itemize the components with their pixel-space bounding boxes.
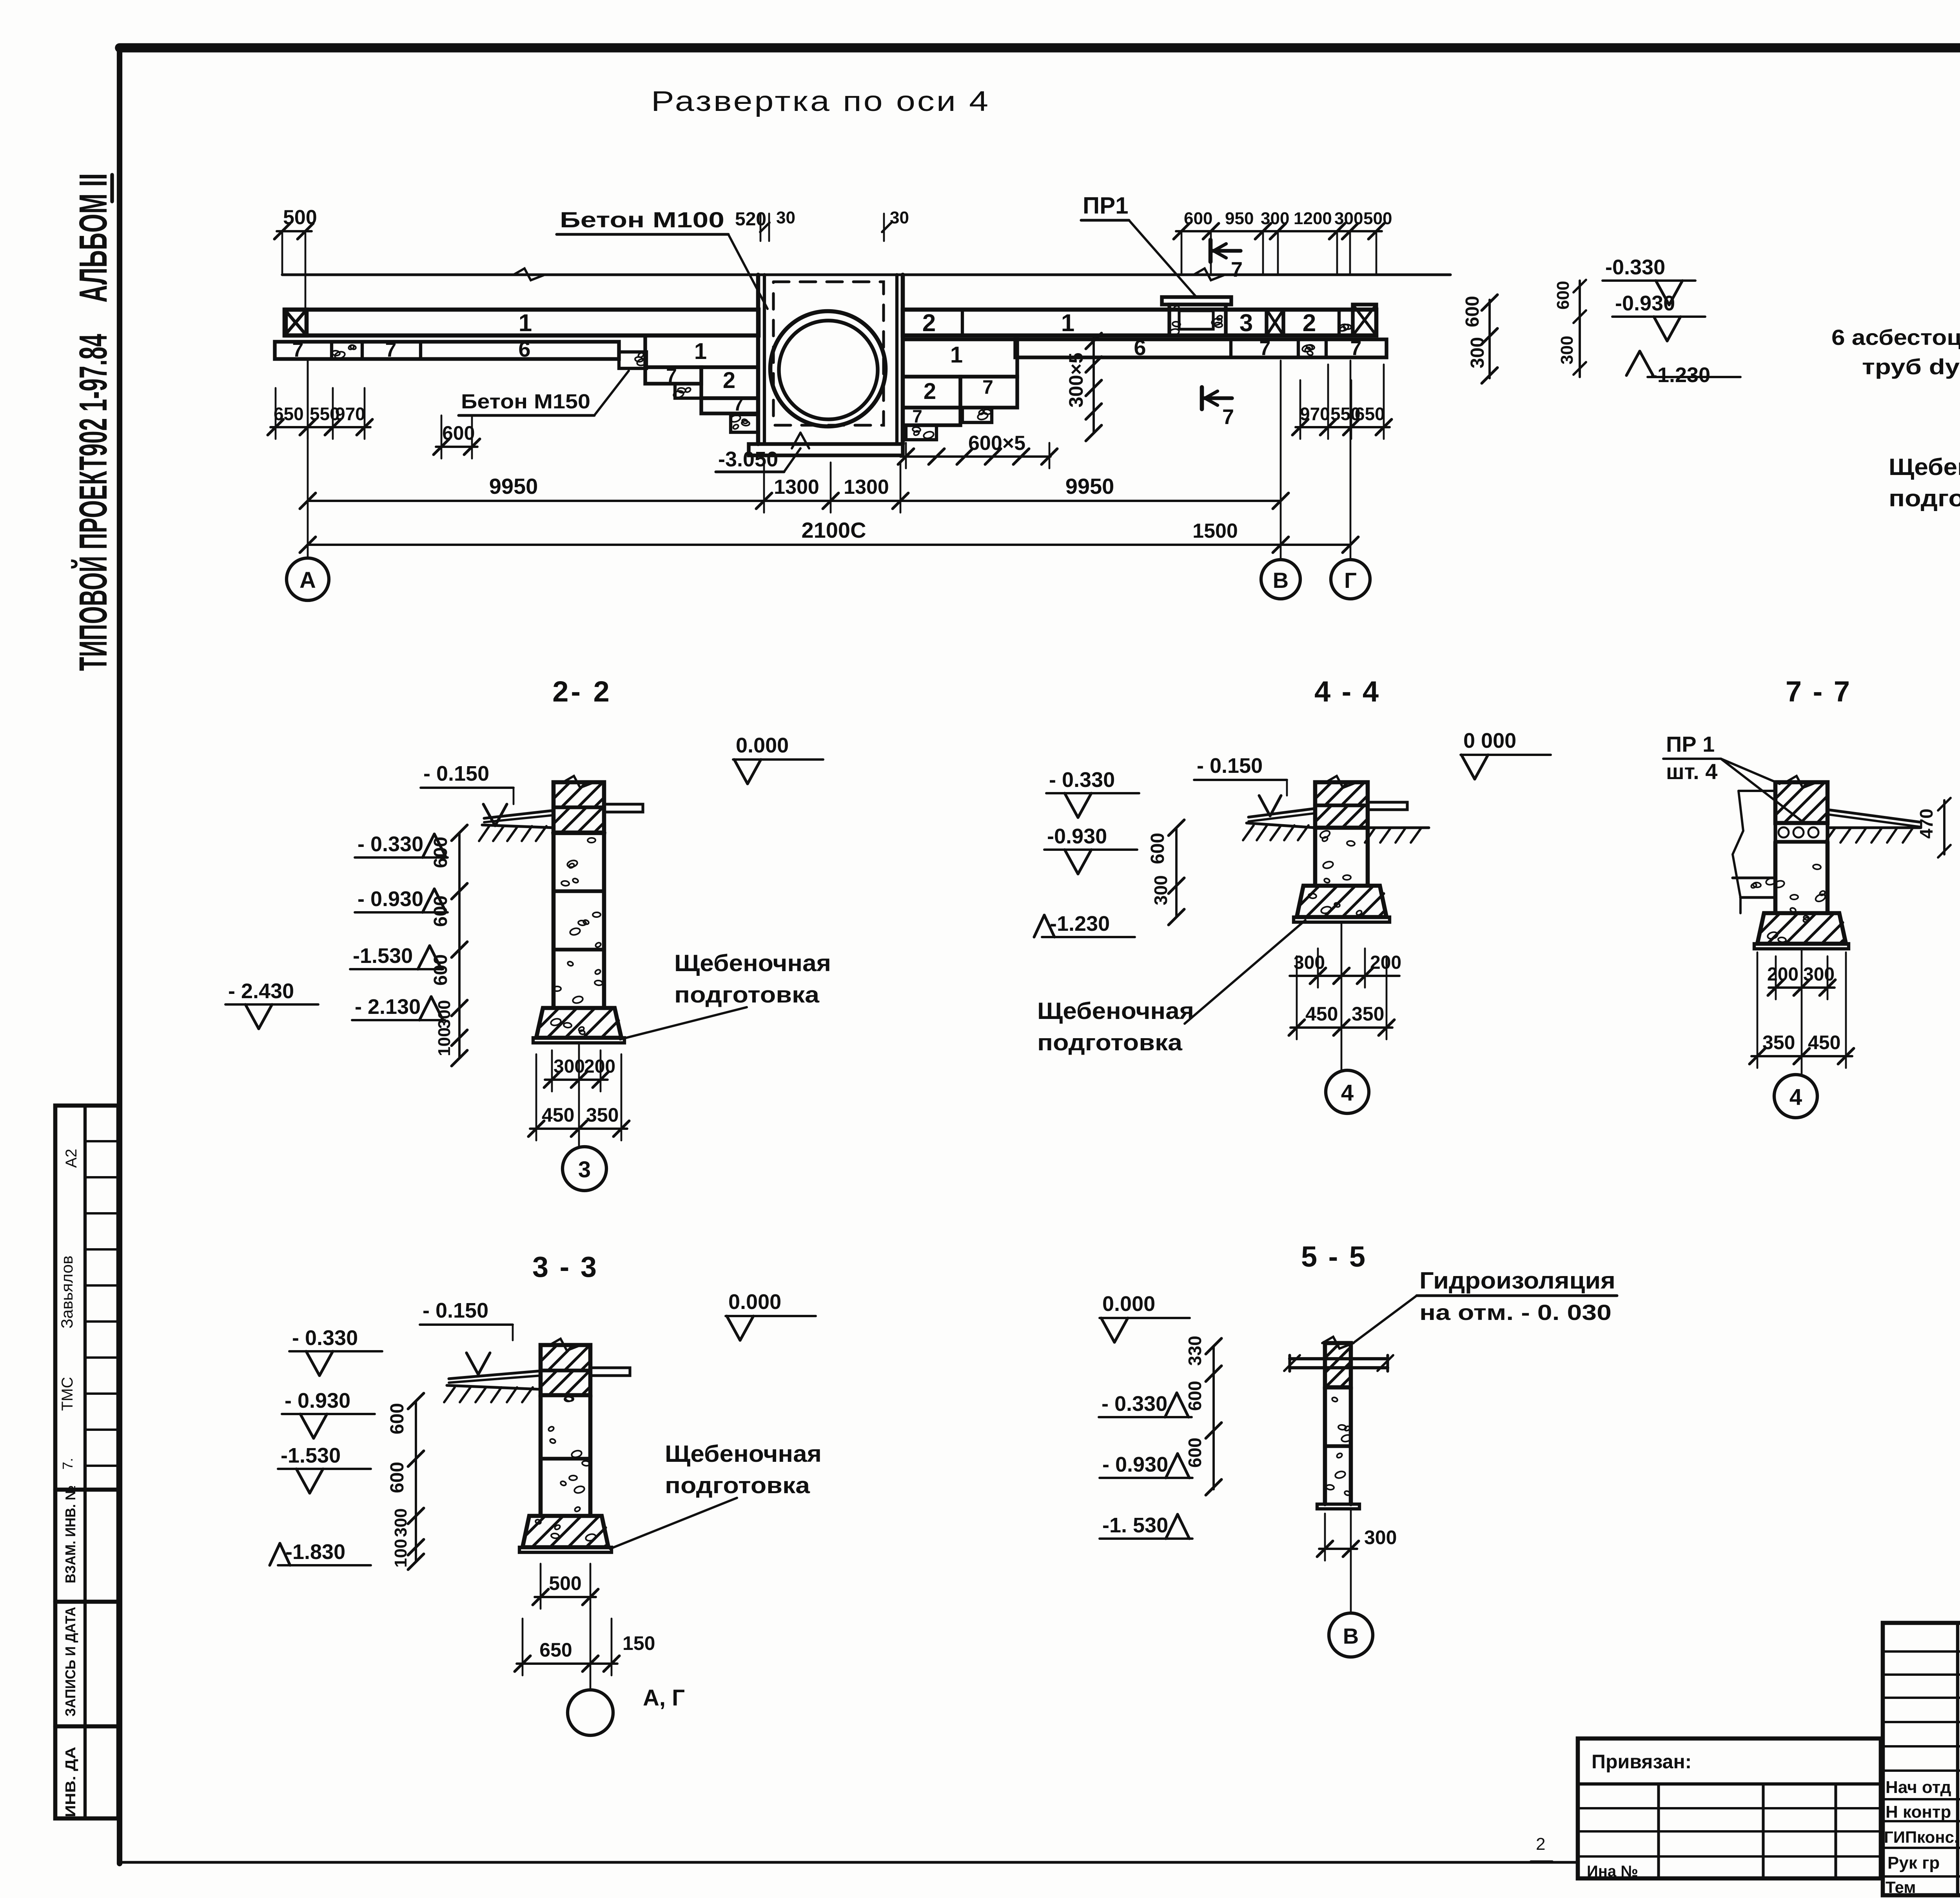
- dim 600 300 vertical right of band: [1488, 300, 1491, 378]
- pit walls: [756, 275, 760, 444]
- svg-text:450: 450: [1305, 1003, 1338, 1025]
- svg-text:-1.530: -1.530: [353, 944, 413, 968]
- svg-text:0 000: 0 000: [1463, 729, 1516, 752]
- svg-text:Г: Г: [1344, 568, 1357, 593]
- svg-text:Гидроизоляция: Гидроизоляция: [1419, 1267, 1615, 1294]
- svg-text:- 0.150: - 0.150: [1197, 754, 1263, 778]
- svg-text:Бетон М100: Бетон М100: [560, 207, 724, 232]
- 5-5 column concrete: [1323, 1387, 1327, 1504]
- svg-text:600: 600: [387, 1403, 408, 1434]
- svg-text:ТМС: ТМС: [59, 1377, 76, 1411]
- svg-text:Привязан:: Привязан:: [1592, 1751, 1691, 1773]
- svg-text:200: 200: [1767, 964, 1798, 985]
- svg-text:Щебеночная: Щебеночная: [1037, 998, 1194, 1024]
- svg-text:7: 7: [982, 376, 993, 398]
- svg-text:6: 6: [518, 337, 530, 361]
- 4-4 column concrete: [1313, 828, 1318, 886]
- svg-text:520: 520: [735, 209, 766, 230]
- svg-text:подготовка: подготовка: [665, 1473, 810, 1498]
- 5-5 axis circle V: [1350, 1509, 1352, 1613]
- svg-text:7.: 7.: [60, 1458, 76, 1470]
- left X anchor box: [285, 310, 307, 335]
- 3-3 dim 650 150: [517, 1662, 617, 1665]
- svg-text:А: А: [299, 567, 316, 593]
- svg-text:300: 300: [435, 1000, 454, 1029]
- svg-text:100: 100: [391, 1539, 410, 1568]
- axis circle G: [1331, 560, 1370, 599]
- 2-2 axis circle 3: [563, 1147, 606, 1191]
- svg-text:970: 970: [335, 404, 365, 424]
- dim row top right 600 950 300 1200 300 500: [1176, 230, 1382, 232]
- 4-4 vertical dims 600 300: [1175, 828, 1178, 917]
- svg-text:- 0.330: - 0.330: [358, 832, 423, 856]
- 2-2 dims 450 350: [530, 1128, 627, 1130]
- svg-text:970: 970: [1300, 404, 1330, 424]
- svg-text:- 0.330: - 0.330: [292, 1326, 358, 1350]
- svg-text:Бетон М150: Бетон М150: [461, 390, 590, 413]
- razvertka slab band right: [903, 310, 1376, 335]
- axis circle A: [287, 558, 329, 600]
- svg-text:-1.230: -1.230: [1650, 363, 1710, 387]
- 4-4 ground: [1247, 823, 1315, 828]
- svg-text:- 2.130: - 2.130: [355, 995, 421, 1019]
- svg-text:3: 3: [1240, 310, 1253, 337]
- svg-text:4: 4: [1789, 1084, 1802, 1110]
- 3-3 footing: [523, 1516, 608, 1547]
- svg-text:- 0.150: - 0.150: [423, 762, 489, 785]
- svg-text:-1.530: -1.530: [281, 1444, 341, 1467]
- 5-5 dim 300: [1319, 1548, 1357, 1550]
- 7-7 footing: [1757, 913, 1846, 944]
- signature table: [1883, 1623, 1960, 1895]
- svg-text:2: 2: [723, 368, 735, 393]
- svg-text:ИНВ. ДА: ИНВ. ДА: [62, 1747, 78, 1817]
- 4-4 pipe stub right: [1368, 802, 1407, 810]
- svg-text:3 - 3: 3 - 3: [532, 1251, 598, 1283]
- right foundation steps: [903, 339, 1017, 377]
- svg-text:Щебеночная: Щебеночная: [1889, 454, 1960, 480]
- svg-text:ПР1: ПР1: [1083, 192, 1129, 219]
- 2-2 vertical dims: [458, 833, 461, 1058]
- svg-text:7: 7: [1259, 337, 1271, 360]
- razvertka slab band left: [286, 310, 759, 335]
- svg-text:600: 600: [1185, 1381, 1205, 1411]
- svg-text:7: 7: [733, 393, 744, 415]
- 4-4 dims 450 350: [1290, 1026, 1392, 1029]
- razvertka ground line: [282, 273, 1450, 276]
- svg-text:- 2.430: - 2.430: [228, 979, 294, 1003]
- svg-text:-0.330: -0.330: [1605, 256, 1665, 279]
- main dim row 21000 1500: [308, 544, 1350, 546]
- svg-text:труб dy 100: труб dy 100: [1862, 354, 1960, 379]
- svg-text:300: 300: [554, 1056, 585, 1077]
- svg-text:Рук гр: Рук гр: [1887, 1853, 1940, 1873]
- section flag 7 lower: [1200, 387, 1204, 409]
- svg-text:300: 300: [1803, 964, 1835, 985]
- 2-2 column: [554, 782, 604, 833]
- pit bottom slab: [749, 444, 903, 455]
- svg-text:300: 300: [1364, 1526, 1397, 1548]
- svg-text:подготовка: подготовка: [674, 982, 820, 1008]
- svg-text:- 0.330: - 0.330: [1049, 768, 1115, 792]
- 3-3 dim 500: [535, 1596, 596, 1598]
- svg-text:Щебеночная: Щебеночная: [674, 950, 831, 976]
- dim 500 top left: [277, 230, 312, 232]
- svg-text:2: 2: [924, 379, 936, 404]
- right X box 1: [1267, 310, 1283, 335]
- svg-text:350: 350: [1352, 1003, 1384, 1025]
- svg-text:500: 500: [1363, 209, 1392, 228]
- 4-4 axis circle 4: [1326, 1070, 1369, 1113]
- svg-text:2: 2: [1536, 1835, 1545, 1854]
- 2-2 column concrete: [552, 833, 556, 1008]
- svg-text:7: 7: [912, 406, 922, 426]
- svg-text:650: 650: [539, 1639, 572, 1661]
- right speckled block in band: [1339, 310, 1353, 335]
- svg-text:30: 30: [776, 208, 795, 227]
- svg-text:350: 350: [1762, 1031, 1795, 1053]
- svg-text:- 0.150: - 0.150: [423, 1299, 488, 1322]
- main dim row 9950 1300 1300 9950: [308, 500, 1281, 502]
- lower strip right: [1015, 339, 1387, 357]
- svg-text:950: 950: [1225, 209, 1254, 228]
- svg-text:4 - 4: 4 - 4: [1314, 675, 1380, 708]
- svg-text:600: 600: [430, 954, 451, 986]
- svg-text:-1.830: -1.830: [285, 1540, 345, 1564]
- svg-text:300: 300: [1334, 209, 1363, 228]
- svg-text:Н контр: Н контр: [1886, 1802, 1951, 1822]
- dim 600 left steps: [436, 446, 477, 448]
- svg-text:450: 450: [1808, 1031, 1840, 1053]
- svg-text:В: В: [1343, 1624, 1359, 1648]
- svg-text:650: 650: [274, 404, 304, 424]
- svg-text:470: 470: [1916, 809, 1936, 839]
- svg-text:Развертка по оси 4: Развертка по оси 4: [651, 86, 990, 117]
- svg-text:подготовка: подготовка: [1037, 1030, 1183, 1055]
- svg-text:шт. 4: шт. 4: [1666, 759, 1717, 784]
- 4-4 dims 300 200: [1290, 975, 1399, 977]
- svg-text:300: 300: [1294, 952, 1325, 973]
- privyazan box: [1578, 1738, 1881, 1878]
- svg-text:А2: А2: [63, 1149, 80, 1168]
- 3-3 column concrete: [539, 1395, 543, 1516]
- 5-5 vertical dims 330 600 600: [1212, 1346, 1215, 1489]
- svg-text:300: 300: [1151, 875, 1171, 905]
- svg-text:300: 300: [391, 1508, 410, 1537]
- svg-text:- 0.930: - 0.930: [358, 887, 423, 911]
- left margin stamp table: [55, 1106, 118, 1818]
- svg-text:ТИПОВОЙ ПРОЕКТ902 1-97.84: ТИПОВОЙ ПРОЕКТ902 1-97.84: [71, 334, 115, 671]
- 5-5 base plate: [1317, 1504, 1359, 1509]
- 7-7 dims 350 450: [1751, 1055, 1852, 1057]
- svg-text:- 0.930: - 0.930: [1102, 1453, 1168, 1476]
- svg-text:600: 600: [442, 422, 475, 444]
- svg-text:2: 2: [922, 310, 936, 337]
- svg-text:А, Г: А, Г: [643, 1685, 685, 1711]
- 4-4 footing: [1297, 886, 1387, 917]
- svg-text:1: 1: [694, 339, 707, 364]
- svg-text:600: 600: [1185, 1438, 1205, 1468]
- svg-text:600: 600: [1553, 281, 1573, 310]
- svg-text:В: В: [1273, 568, 1289, 593]
- svg-text:-0.930: -0.930: [1615, 292, 1675, 315]
- dim 600x5 right steps: [900, 455, 1051, 458]
- svg-text:2- 2: 2- 2: [552, 675, 612, 708]
- dim 300xS vertical right: [1093, 335, 1095, 433]
- svg-text:1500: 1500: [1192, 520, 1238, 542]
- svg-text:330: 330: [1185, 1336, 1205, 1366]
- pit inner dashed liner: [773, 282, 884, 425]
- 2-2 dims 300 200: [545, 1079, 608, 1081]
- svg-text:300×5: 300×5: [1065, 353, 1087, 408]
- 7-7 axis circle 4: [1774, 1075, 1817, 1118]
- svg-text:1: 1: [1061, 310, 1074, 337]
- svg-text:на отм. - 0. 030: на отм. - 0. 030: [1419, 1300, 1612, 1325]
- svg-text:0.000: 0.000: [1102, 1292, 1155, 1316]
- svg-text:600: 600: [430, 896, 451, 927]
- 2-2 footing: [536, 1008, 621, 1038]
- pit pipe circles: [770, 311, 886, 426]
- svg-text:Завьялов: Завьялов: [58, 1256, 76, 1329]
- 3-3 axis circle A,G: [568, 1690, 613, 1735]
- svg-text:7: 7: [292, 339, 304, 361]
- PR1 block with window: [1169, 305, 1226, 335]
- svg-text:Щебеночная: Щебеночная: [665, 1441, 822, 1467]
- svg-text:0.000: 0.000: [736, 734, 789, 757]
- 5-5 wing pipes: [1290, 1357, 1388, 1360]
- dim row 970 550 650 right: [1296, 426, 1390, 428]
- svg-text:Тем: Тем: [1886, 1878, 1916, 1896]
- svg-text:500: 500: [549, 1572, 581, 1594]
- svg-text:600: 600: [387, 1462, 408, 1493]
- 2-2 pipe stub right: [604, 804, 643, 812]
- svg-text:600: 600: [1462, 296, 1483, 327]
- 5-5 column top: [1325, 1343, 1351, 1387]
- svg-text:7: 7: [1222, 405, 1234, 429]
- svg-text:ПР 1: ПР 1: [1666, 732, 1715, 756]
- section flag 7 upper: [1209, 240, 1213, 262]
- svg-text:350: 350: [586, 1104, 619, 1126]
- 3-3 pipe stub right: [590, 1368, 630, 1376]
- 7-7 channel blocks row: [1775, 823, 1828, 842]
- svg-text:600: 600: [1184, 209, 1212, 228]
- 4-4 column: [1315, 782, 1368, 828]
- 7-7 ground right: [1828, 826, 1921, 829]
- svg-text:1: 1: [950, 342, 963, 368]
- svg-text:7 - 7: 7 - 7: [1786, 675, 1851, 708]
- svg-text:600: 600: [1147, 833, 1168, 864]
- svg-text:1300: 1300: [774, 476, 819, 499]
- svg-text:600: 600: [430, 837, 451, 868]
- svg-text:5 - 5: 5 - 5: [1301, 1240, 1367, 1273]
- 6-6 left elevation -1.230: [1626, 351, 1640, 375]
- left foundation steps: [619, 352, 646, 368]
- svg-text:ЗАПИСЬ И ДАТА: ЗАПИСЬ И ДАТА: [62, 1607, 78, 1717]
- svg-text:ГИПконс.: ГИПконс.: [1884, 1828, 1959, 1846]
- svg-text:9950: 9950: [489, 474, 538, 499]
- svg-text:2100С: 2100С: [801, 518, 866, 542]
- svg-text:30: 30: [890, 208, 909, 227]
- svg-text:600×5: 600×5: [968, 432, 1025, 455]
- 3-3 ground left: [447, 1385, 541, 1389]
- svg-text:4: 4: [1341, 1080, 1354, 1106]
- 7-7 left break line and adjacent slab: [1733, 791, 1743, 897]
- svg-text:300: 300: [1261, 209, 1289, 228]
- 3-3 column: [541, 1345, 590, 1395]
- svg-text:-1. 530: -1. 530: [1102, 1514, 1168, 1537]
- svg-text:-3.050: -3.050: [718, 448, 778, 471]
- svg-text:3: 3: [578, 1157, 591, 1182]
- svg-text:Нач отд: Нач отд: [1886, 1778, 1951, 1797]
- svg-text:- 0.330: - 0.330: [1102, 1392, 1167, 1416]
- svg-text:6 асбестоцементных: 6 асбестоцементных: [1831, 325, 1960, 350]
- 7-7 column: [1775, 782, 1828, 823]
- PR1 lintel plate: [1162, 297, 1231, 305]
- svg-text:100: 100: [435, 1028, 454, 1056]
- svg-text:- 0.930: - 0.930: [285, 1389, 350, 1412]
- axis circle B: [1261, 560, 1300, 599]
- svg-text:9950: 9950: [1065, 474, 1114, 499]
- svg-text:7: 7: [1350, 337, 1362, 360]
- svg-text:-1.230: -1.230: [1050, 912, 1110, 935]
- svg-text:0.000: 0.000: [728, 1290, 781, 1314]
- svg-text:500: 500: [283, 206, 317, 229]
- svg-text:7: 7: [385, 339, 397, 361]
- svg-text:650: 650: [1355, 404, 1385, 424]
- 7-7 dims 200 300: [1769, 986, 1835, 989]
- svg-text:450: 450: [542, 1104, 574, 1126]
- svg-text:2: 2: [1303, 310, 1316, 337]
- dim row 650 550 970 left: [270, 426, 370, 428]
- svg-text:1300: 1300: [844, 476, 889, 499]
- svg-text:ВЗАМ. ИНВ. №: ВЗАМ. ИНВ. №: [62, 1485, 78, 1583]
- svg-text:-0.930: -0.930: [1047, 825, 1107, 848]
- svg-text:300: 300: [1467, 337, 1488, 368]
- svg-text:6: 6: [1134, 335, 1146, 360]
- right X box 2: [1353, 305, 1376, 335]
- svg-text:Ина №: Ина №: [1587, 1863, 1638, 1880]
- lower strip left: [275, 342, 619, 359]
- svg-text:АЛЬБОМ II: АЛЬБОМ II: [71, 173, 115, 303]
- svg-text:1200: 1200: [1294, 209, 1332, 228]
- svg-text:1: 1: [519, 310, 532, 337]
- svg-text:подготовка: подготовка: [1889, 485, 1960, 511]
- 2-2 ground left: [482, 825, 554, 828]
- svg-text:300: 300: [1557, 336, 1577, 364]
- sheet frame border: [120, 43, 1960, 53]
- svg-text:7: 7: [1231, 258, 1243, 281]
- 3-3 vertical dims: [415, 1401, 417, 1562]
- svg-text:150: 150: [622, 1632, 655, 1654]
- 7-7 column concrete: [1773, 842, 1778, 913]
